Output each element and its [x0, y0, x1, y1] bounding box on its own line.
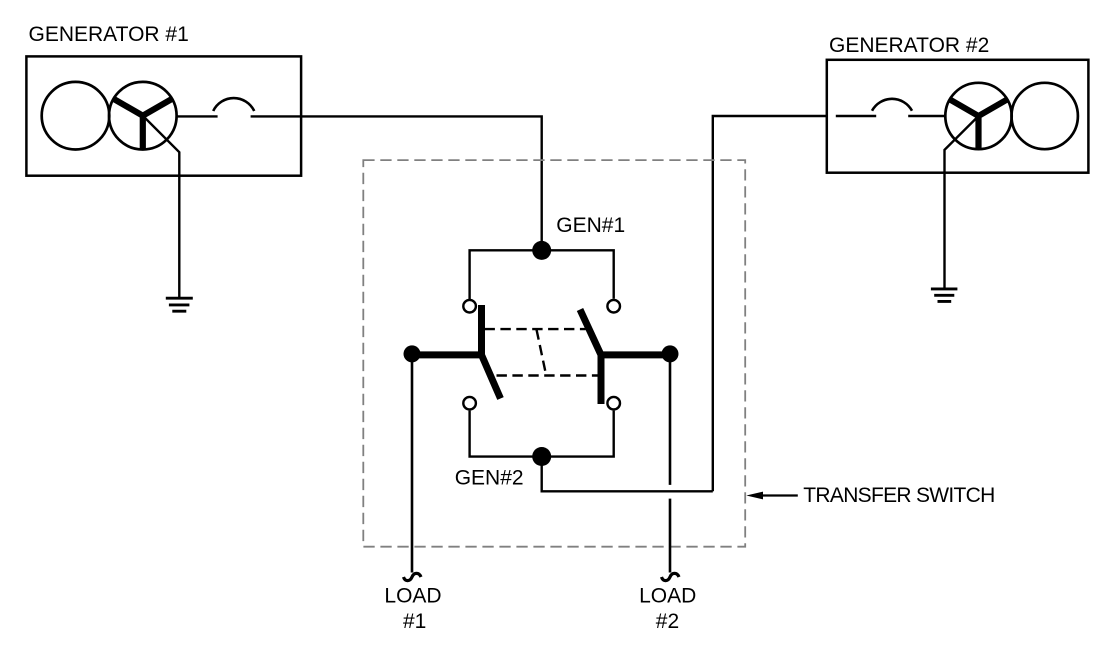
- generator G2 right circle: [1011, 83, 1077, 149]
- svg-text:GENERATOR #2: GENERATOR #2: [829, 34, 989, 57]
- node LOAD#1 terminal dot: [404, 345, 421, 362]
- wire break squiggle LOAD#2: [662, 573, 680, 580]
- ground symbol G2: [931, 289, 958, 302]
- arrow to transfer switch: [761, 494, 798, 496]
- switch blade left pole: [412, 305, 501, 399]
- wire G1 output to transfer switch: [251, 116, 542, 250]
- generator G2 enclosure box: [827, 60, 1089, 173]
- transfer switch dashed enclosure: [363, 160, 745, 547]
- wire GEN#2 jumper to generator 2: [542, 457, 713, 492]
- svg-text:GEN#1: GEN#1: [556, 214, 625, 237]
- svg-text:GENERATOR #1: GENERATOR #1: [29, 23, 189, 46]
- generator G1 alternator circle: [109, 82, 177, 150]
- wire LOAD#1: [411, 354, 414, 573]
- contact bottom-left: [463, 397, 476, 410]
- circuit breaker CB2 left stub wire: [836, 115, 876, 117]
- node GEN#1 terminal dot: [532, 241, 551, 260]
- svg-text:LOAD: LOAD: [639, 584, 696, 607]
- contact bottom-right: [607, 397, 620, 410]
- contact top-left: [463, 300, 476, 313]
- svg-text:LOAD: LOAD: [384, 584, 441, 607]
- circuit breaker CB2 right stub wire: [908, 115, 946, 117]
- svg-text:#1: #1: [403, 610, 426, 633]
- svg-text:TRANSFER SWITCH: TRANSFER SWITCH: [803, 484, 995, 507]
- wire LOAD#2 upper segment: [669, 354, 672, 485]
- svg-text:#2: #2: [656, 610, 679, 633]
- generator G1 neutral wire to ground: [143, 116, 180, 298]
- circuit breaker CB1 left stub wire: [177, 115, 218, 117]
- mechanical linkage dashed middle: [537, 330, 547, 376]
- generator G2 alternator circle: [945, 83, 1011, 149]
- generator G1 left circle: [42, 82, 110, 150]
- wire LOAD#2 lower segment: [669, 499, 672, 573]
- mechanical linkage dashed top: [485, 328, 586, 330]
- mechanical linkage dashed bottom: [497, 374, 598, 376]
- circuit breaker CB1 arc: [213, 98, 254, 111]
- node LOAD#2 terminal dot: [662, 345, 679, 362]
- wire GEN#2 bus: [470, 411, 614, 457]
- svg-text:GEN#2: GEN#2: [455, 467, 524, 490]
- contact top-right: [607, 300, 620, 313]
- generator G1 wye winding symbol: [114, 99, 173, 150]
- node GEN#2 terminal dot: [532, 447, 551, 466]
- wire G2 input from transfer switch: [713, 116, 827, 491]
- generator G2 neutral wire to ground: [945, 116, 979, 288]
- switch blade right pole: [580, 310, 670, 405]
- wire GEN#1 bus: [470, 250, 614, 299]
- generator G2 wye winding symbol: [950, 100, 1007, 150]
- circuit breaker CB2 arc: [872, 99, 912, 111]
- generator G1 enclosure box: [26, 56, 301, 175]
- ground symbol G1: [166, 298, 193, 311]
- wire break squiggle LOAD#1: [404, 573, 422, 580]
